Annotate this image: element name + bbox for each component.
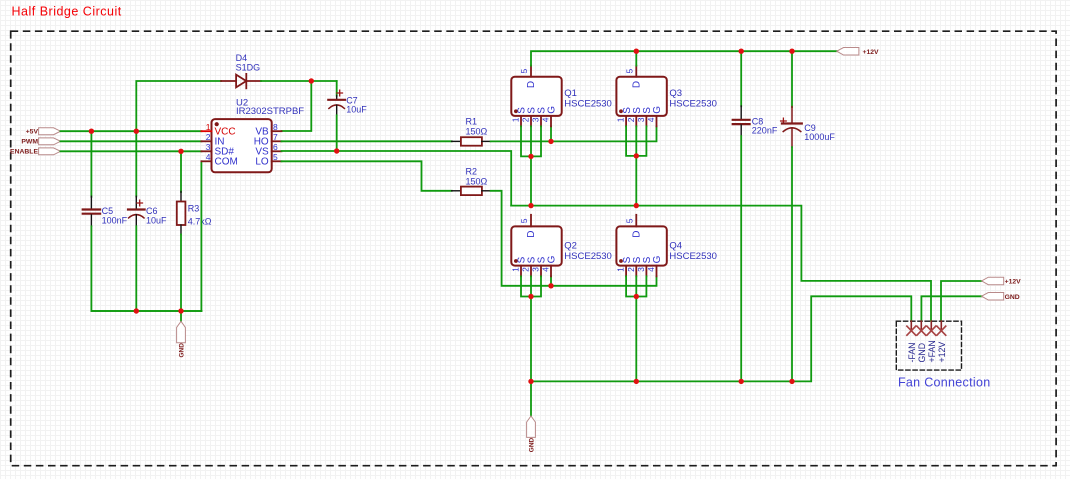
junction Q1 sources	[528, 154, 533, 159]
wire C8 bottom to gnd rail	[740, 136, 742, 381]
svg-text:4.7kΩ: 4.7kΩ	[188, 217, 212, 227]
junction rail/R3-gnd	[178, 308, 183, 313]
svg-text:R2: R2	[466, 167, 478, 177]
svg-text:+12V: +12V	[937, 342, 947, 363]
wire C5 branch vertical	[90, 131, 92, 197]
diode D4 S1DG	[221, 53, 261, 88]
svg-text:4: 4	[646, 267, 656, 272]
svg-text:5: 5	[519, 69, 529, 74]
transistor Q2 HSCE2530	[511, 215, 612, 277]
U2 pin 6 VS	[255, 142, 281, 158]
svg-text:+FAN: +FAN	[927, 340, 937, 362]
svg-text:1000uF: 1000uF	[804, 132, 835, 142]
junction dots layer	[89, 49, 795, 385]
svg-text:6: 6	[273, 142, 278, 152]
wire ENABLE to U2 pin3	[61, 150, 202, 152]
wire PWM to U2 pin2	[61, 140, 202, 142]
svg-text:3: 3	[531, 267, 541, 272]
fan pin stubs	[911, 321, 941, 331]
svg-text:HSCE2530: HSCE2530	[669, 251, 717, 262]
svg-text:3: 3	[636, 267, 646, 272]
wire C7 bottom to VS line	[336, 115, 338, 151]
flag +12V right	[982, 277, 1022, 285]
wire gnd rail under C5/C6/R3	[91, 310, 201, 312]
wire Q1 gate drop	[550, 126, 552, 141]
wire mid rail (VS to fan +)	[511, 206, 931, 321]
flag +5V	[26, 128, 61, 136]
wire gnd rail bottom	[531, 296, 911, 381]
wire R3 branch vertical	[180, 151, 182, 192]
junction gnd rail/C8	[739, 379, 744, 384]
wire +5V to U2 pin1	[61, 130, 202, 132]
U2 pin 3 SD#	[201, 142, 234, 158]
wire Q3 sources bundle	[626, 126, 646, 205]
svg-text:2: 2	[626, 117, 636, 122]
svg-text:1: 1	[511, 117, 521, 122]
svg-text:G: G	[652, 255, 663, 263]
junction mid rail/Q1-Q2	[528, 203, 533, 208]
wire stub to GND flag mid	[530, 381, 532, 416]
svg-text:1: 1	[616, 117, 626, 122]
svg-text:5: 5	[625, 218, 635, 223]
svg-text:G: G	[547, 106, 558, 114]
svg-text:150Ω: 150Ω	[466, 127, 488, 137]
op-amp driver U2 IR2302STRPBF body	[212, 98, 305, 173]
junction rail/C6	[134, 308, 139, 313]
svg-text:D: D	[631, 231, 642, 238]
fan pin X 1	[907, 326, 916, 335]
svg-text:Q1: Q1	[564, 88, 577, 99]
svg-text:150Ω: 150Ω	[466, 177, 488, 187]
wire D4 anode branch (from +5V up to diode line)	[136, 81, 221, 131]
U2 pin 1 VCC	[201, 122, 235, 138]
svg-text:D: D	[526, 231, 537, 238]
svg-text:COM: COM	[215, 157, 238, 168]
fan connector dashed box	[896, 321, 961, 370]
svg-text:100nF: 100nF	[102, 215, 128, 225]
wire R1 to Q1/Q3 gates	[491, 126, 657, 141]
svg-text:2: 2	[206, 132, 211, 142]
svg-text:8: 8	[273, 122, 278, 132]
svg-text:10uF: 10uF	[346, 104, 367, 114]
svg-text:Fan Connection: Fan Connection	[898, 376, 990, 390]
junction Q2 sources	[528, 294, 533, 299]
wire fan GND column	[921, 296, 981, 321]
svg-text:GND: GND	[179, 343, 186, 358]
fan pin X 4	[937, 326, 946, 335]
svg-text:Half Bridge Circuit: Half Bridge Circuit	[12, 5, 122, 19]
flag GND right	[982, 293, 1020, 301]
junction Q4 sources	[634, 294, 639, 299]
svg-text:G: G	[652, 106, 663, 114]
wire VB riser	[282, 81, 312, 131]
junction rail/C9	[789, 49, 794, 54]
svg-text:5: 5	[519, 218, 529, 223]
svg-text:GND: GND	[1005, 294, 1020, 301]
svg-text:4: 4	[541, 267, 551, 272]
wire stub to GND flag left	[180, 311, 182, 321]
ground flag GND (mid)	[527, 416, 536, 452]
junction mid rail/Q3-Q4	[634, 203, 639, 208]
svg-text:5: 5	[273, 152, 278, 162]
svg-text:D: D	[526, 81, 537, 88]
svg-text:4: 4	[541, 117, 551, 122]
flag ENABLE	[10, 148, 60, 156]
svg-text:D: D	[631, 81, 642, 88]
wire C8 branch top	[740, 51, 742, 106]
wire C6 bottom to gnd rail	[135, 226, 137, 311]
svg-text:S1DG: S1DG	[236, 63, 261, 73]
fan pin X 3	[927, 326, 936, 335]
flag +12V top	[837, 48, 879, 56]
resistor R3	[177, 192, 212, 235]
svg-text:+12V: +12V	[1005, 279, 1022, 286]
svg-text:Q3: Q3	[669, 88, 682, 99]
svg-text:-FAN: -FAN	[907, 342, 917, 362]
wire VS line from U2	[282, 151, 512, 206]
junction D4/VB	[309, 78, 314, 83]
svg-text:LO: LO	[255, 157, 269, 168]
wire Q3 drain drop	[635, 51, 637, 65]
wire C5 bottom to gnd rail	[91, 226, 201, 311]
wire C7 top	[336, 81, 338, 96]
svg-text:2: 2	[626, 267, 636, 272]
svg-text:3: 3	[206, 142, 211, 152]
svg-text:2: 2	[521, 117, 531, 122]
wire C9 bottom to gnd rail	[791, 147, 793, 381]
wire C9 branch top	[791, 51, 793, 107]
transistor Q3 HSCE2530	[616, 66, 717, 127]
svg-text:GND: GND	[917, 343, 927, 363]
svg-text:3: 3	[636, 117, 646, 122]
ground flag GND (left)	[177, 321, 186, 357]
wire Q4 sources bundle	[626, 276, 646, 381]
svg-text:R1: R1	[466, 117, 478, 127]
svg-text:4: 4	[206, 152, 211, 162]
svg-text:2: 2	[521, 267, 531, 272]
svg-text:G: G	[547, 255, 558, 263]
junction gnd rail/Q4 sources	[634, 379, 639, 384]
svg-text:3: 3	[531, 117, 541, 122]
U2 pin 2 IN	[201, 132, 224, 148]
svg-text:HSCE2530: HSCE2530	[669, 99, 717, 110]
junction +5V/C6	[134, 129, 139, 134]
flag PWM	[21, 138, 60, 146]
svg-text:1: 1	[616, 267, 626, 272]
junction gnd rail/C9	[789, 379, 794, 384]
wire R2 to Q2/Q4 gates	[491, 191, 657, 286]
wire Q2 sources bundle	[521, 276, 541, 381]
wire U2 COM pin down	[200, 161, 202, 311]
svg-text:D4: D4	[236, 53, 248, 63]
svg-text:HSCE2530: HSCE2530	[564, 99, 612, 110]
svg-text:220nF: 220nF	[752, 126, 778, 136]
U2 pin 7 HO	[254, 132, 282, 148]
wire fan +12V column	[941, 281, 982, 321]
svg-text:10uF: 10uF	[146, 215, 167, 225]
wire R3 bottom to gnd rail	[180, 235, 182, 312]
U2 pin 8 VB	[255, 122, 281, 138]
junction ENABLE/R3	[178, 149, 183, 154]
capacitor C7 (polarized)	[328, 90, 367, 115]
svg-text:PWM: PWM	[21, 139, 38, 146]
junction Q3 sources	[634, 153, 639, 158]
capacitor C8	[733, 106, 778, 136]
svg-text:+5V: +5V	[26, 129, 39, 136]
U2 pin 5 LO	[255, 152, 281, 168]
svg-text:+12V: +12V	[863, 49, 880, 56]
wire D4 cathode to C7 corner	[261, 80, 337, 82]
junction +5V/C5	[89, 129, 94, 134]
svg-text:1: 1	[511, 267, 521, 272]
wire LO line from U2 to R2	[282, 161, 452, 191]
capacitor C5	[83, 196, 128, 226]
junction rail/C8	[739, 49, 744, 54]
svg-text:7: 7	[273, 132, 278, 142]
wire Q2 gate drop	[550, 276, 552, 285]
junction gnd rail/Q2 sources	[528, 379, 533, 384]
svg-text:IR2302STRPBF: IR2302STRPBF	[236, 106, 304, 117]
capacitor C9 (polarized)	[781, 107, 836, 148]
junction R1 line / Q1 gate	[548, 139, 553, 144]
fan pin X 2	[917, 326, 926, 335]
U2 pin 4 COM	[201, 152, 237, 168]
svg-text:5: 5	[625, 69, 635, 74]
wire +12V top rail	[531, 51, 837, 65]
svg-text:Q4: Q4	[669, 241, 682, 252]
resistor R1	[452, 117, 491, 146]
capacitor C6 (polarized)	[128, 196, 167, 226]
svg-text:R3: R3	[188, 204, 200, 214]
junction R2 line / Q2 gate	[548, 283, 553, 288]
svg-text:1: 1	[206, 122, 211, 132]
resistor R2	[452, 167, 491, 195]
wire HO line to R1	[282, 140, 452, 142]
wire C6 branch vertical	[135, 131, 137, 196]
svg-text:4: 4	[646, 117, 656, 122]
wire Q1 sources bundle	[521, 126, 541, 205]
transistor Q1 HSCE2530	[511, 66, 612, 127]
svg-text:Q2: Q2	[564, 241, 577, 252]
transistor Q4 HSCE2530	[616, 215, 717, 277]
junction C7/VS	[334, 148, 339, 153]
svg-text:GND: GND	[529, 437, 536, 452]
svg-text:ENABLE: ENABLE	[10, 149, 38, 156]
svg-text:HSCE2530: HSCE2530	[564, 251, 612, 262]
junction rail/Q3 drain	[634, 49, 639, 54]
